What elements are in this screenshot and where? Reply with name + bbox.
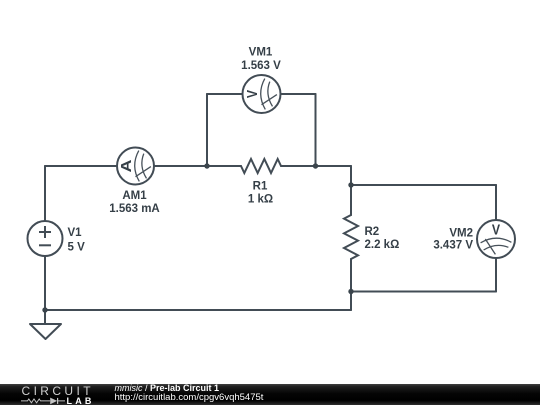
wire V1 bottom to ground node bbox=[44, 256, 46, 310]
svg-text:V: V bbox=[245, 90, 261, 98]
svg-text:A: A bbox=[118, 159, 135, 172]
wire node D down to bottom wire bbox=[350, 292, 352, 311]
svg-text:1.563 mA: 1.563 mA bbox=[109, 203, 160, 215]
CircuitLab logo wordmark LAB bbox=[67, 397, 95, 406]
svg-text:R2: R2 bbox=[365, 226, 380, 238]
wire AM1 to node A bbox=[154, 165, 207, 167]
voltmeter VM2 bbox=[477, 220, 515, 258]
svg-text:V: V bbox=[492, 223, 500, 239]
wire corner down to node C bbox=[350, 166, 352, 185]
ground node junction bbox=[42, 307, 47, 312]
wire node B to right corner bbox=[316, 165, 352, 167]
svg-text:R1: R1 bbox=[253, 181, 268, 193]
CircuitLab logo wordmark CIRCUIT bbox=[22, 385, 94, 397]
wire VM2 bottom to node D bbox=[351, 291, 496, 293]
resistor R1 bbox=[241, 159, 281, 173]
svg-text:2.2 kΩ: 2.2 kΩ bbox=[365, 239, 400, 251]
node C junction bbox=[348, 182, 353, 187]
wire VM1 left vertical bbox=[206, 94, 208, 166]
resistor R2 bbox=[344, 215, 358, 259]
wire VM2 top vertical bbox=[495, 185, 497, 220]
ground bbox=[30, 324, 61, 339]
wire VM1 right horizontal bbox=[281, 93, 316, 95]
footer attribution line 2 bbox=[115, 393, 264, 403]
wire V1 top to top-left corner bbox=[44, 166, 46, 221]
svg-text:V1: V1 bbox=[68, 227, 83, 239]
wire R2 to node D bbox=[350, 259, 352, 292]
wire R1 to node B bbox=[281, 165, 316, 167]
node A junction bbox=[204, 163, 209, 168]
wire node C to VM2 top bbox=[351, 184, 496, 186]
node B junction bbox=[313, 163, 318, 168]
wire VM1 left horizontal bbox=[207, 93, 243, 95]
svg-text:1.563 V: 1.563 V bbox=[241, 60, 281, 72]
wire node A to R1 bbox=[207, 165, 241, 167]
svg-text:VM1: VM1 bbox=[249, 47, 273, 59]
svg-text:AM1: AM1 bbox=[122, 190, 147, 202]
wire VM2 bottom vertical bbox=[495, 258, 497, 292]
svg-text:5 V: 5 V bbox=[68, 242, 86, 254]
svg-text:1 kΩ: 1 kΩ bbox=[248, 194, 273, 206]
footer attribution line 1 bbox=[115, 384, 220, 393]
wire bottom horizontal bbox=[45, 309, 351, 311]
svg-text:VM2: VM2 bbox=[449, 227, 473, 239]
ammeter AM1 bbox=[117, 148, 154, 185]
wire node C to R2 bbox=[350, 185, 352, 215]
node D junction bbox=[348, 289, 353, 294]
CircuitLab logo wire-resistor-diode doodle bbox=[21, 396, 67, 406]
wire VM1 right vertical bbox=[315, 94, 317, 166]
svg-text:3.437 V: 3.437 V bbox=[433, 240, 473, 252]
wire top-left corner to AM1 bbox=[45, 165, 117, 167]
voltage source V1 bbox=[28, 221, 63, 256]
ground stem bbox=[44, 310, 46, 324]
voltmeter VM1 bbox=[243, 75, 281, 113]
